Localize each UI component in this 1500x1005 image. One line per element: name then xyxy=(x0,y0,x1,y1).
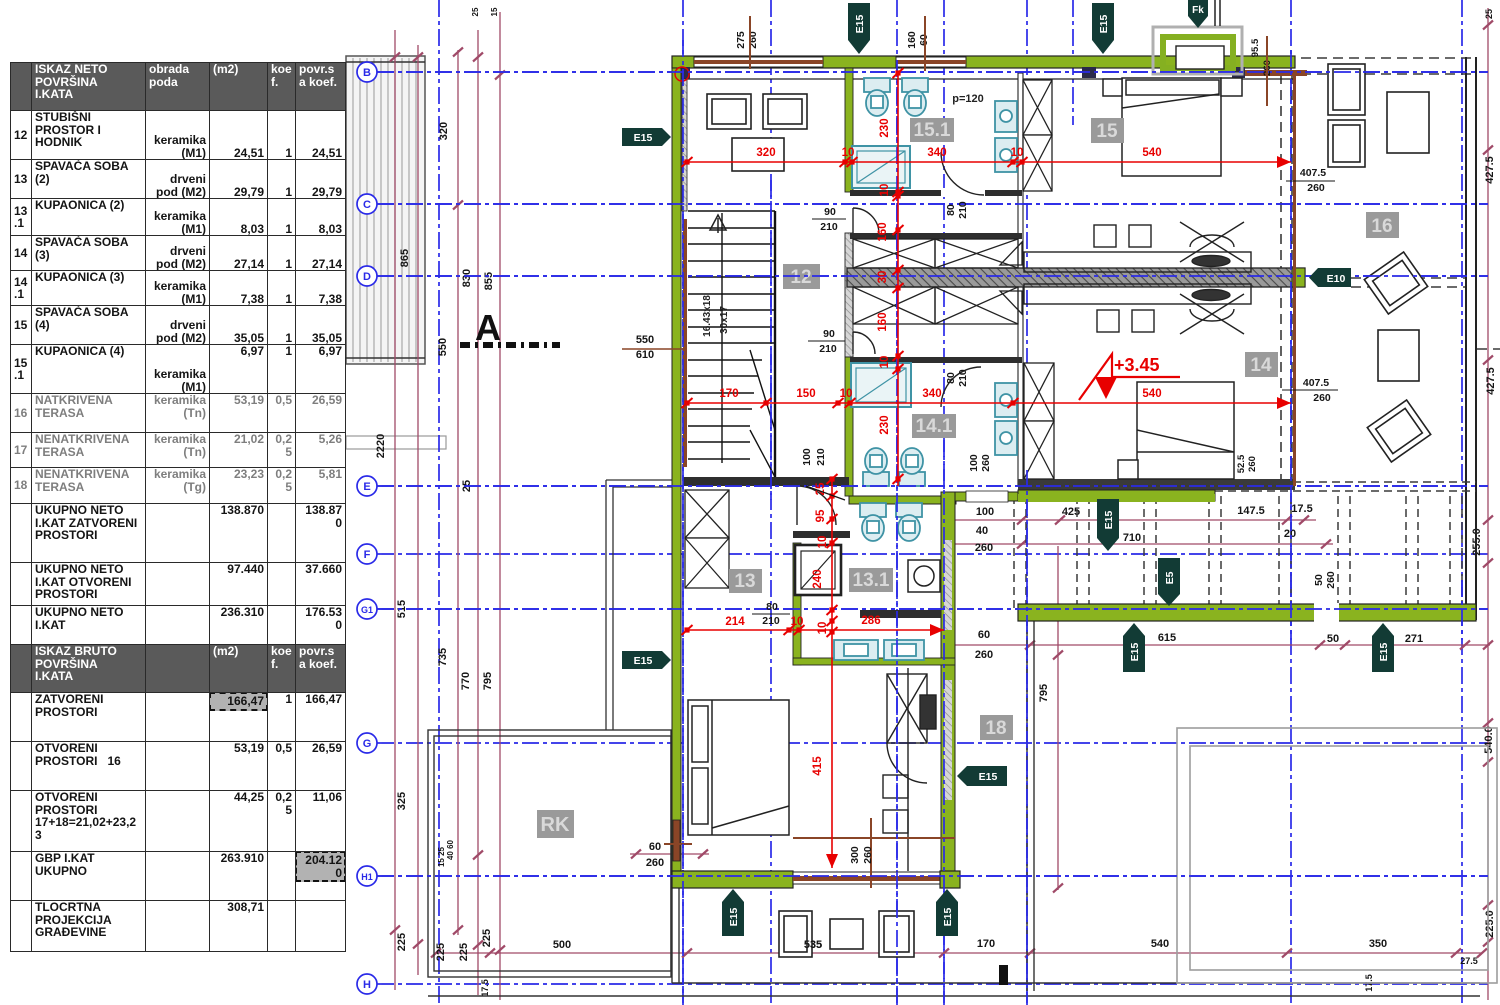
grid line C xyxy=(377,203,1488,205)
svg-text:340: 340 xyxy=(927,147,946,159)
grid line B xyxy=(377,71,1488,73)
svg-text:260: 260 xyxy=(1307,182,1325,194)
svg-text:C: C xyxy=(363,199,371,211)
callout box right of table xyxy=(346,436,446,449)
svg-text:15 25: 15 25 xyxy=(437,846,446,867)
svg-text:865: 865 xyxy=(399,249,411,267)
bottom terrace outline xyxy=(428,621,1480,996)
svg-text:50: 50 xyxy=(1313,574,1325,586)
svg-text:17.5: 17.5 xyxy=(1291,503,1312,515)
E15 banner down top wall 1 xyxy=(848,3,870,54)
room 12 label xyxy=(783,264,820,289)
svg-text:535: 535 xyxy=(804,939,822,951)
svg-text:325: 325 xyxy=(396,792,408,810)
svg-text:160: 160 xyxy=(877,312,889,331)
red rotated labels vertical chain 832 xyxy=(812,482,829,776)
door arc 14.1 xyxy=(941,367,981,407)
pergola top wall green xyxy=(1018,494,1215,502)
svg-text:275: 275 xyxy=(735,31,747,49)
grid col 7 xyxy=(1072,0,1074,125)
room 16 furniture xyxy=(1328,64,1431,462)
brown tick lower wall xyxy=(664,818,955,888)
svg-text:10: 10 xyxy=(879,184,891,197)
pergola posts dashed xyxy=(1014,482,1476,608)
svg-text:F: F xyxy=(364,549,371,561)
svg-text:147.5: 147.5 xyxy=(1237,505,1265,517)
E15 banner up bottom terrace 1 xyxy=(722,889,744,936)
svg-text:100: 100 xyxy=(976,506,994,518)
shower 15.1 xyxy=(852,146,910,188)
svg-text:B: B xyxy=(363,67,371,79)
svg-text:p=120: p=120 xyxy=(952,93,984,105)
vanity sinks 13.1 xyxy=(834,640,924,660)
wall 14.1 bottom green xyxy=(849,496,956,504)
svg-text:210: 210 xyxy=(815,448,827,466)
svg-text:2220: 2220 xyxy=(375,434,387,458)
550/610 labels left of stairs xyxy=(636,334,654,361)
rotated black door labels xyxy=(735,31,1337,864)
svg-text:+3.45: +3.45 xyxy=(1114,355,1160,375)
office chairs xyxy=(1180,222,1244,334)
svg-text:E15: E15 xyxy=(728,908,740,927)
stair text xyxy=(702,295,730,337)
red rotated labels vertical chain 898 xyxy=(877,118,891,434)
E15 banner down pergola xyxy=(1097,499,1119,551)
wall wardrobe top xyxy=(850,233,1022,239)
grid bubbles xyxy=(357,62,377,994)
E15 badge right-point upper xyxy=(622,128,671,146)
svg-text:27.5: 27.5 xyxy=(1460,956,1478,966)
svg-text:25: 25 xyxy=(471,7,480,16)
E5 banner down pergola xyxy=(1158,558,1180,606)
grid line E xyxy=(377,485,1488,487)
grid line G xyxy=(377,742,1488,744)
lower block east wall green xyxy=(941,492,955,881)
svg-text:230: 230 xyxy=(879,118,891,137)
coffee table room 12 xyxy=(732,138,784,171)
stair up arrow xyxy=(710,215,726,233)
svg-text:E15: E15 xyxy=(1103,511,1115,530)
grid line H xyxy=(377,983,1488,985)
dimension tick marks xyxy=(390,21,1493,958)
svg-text:E15: E15 xyxy=(942,908,954,927)
grid col 9 xyxy=(1461,0,1463,1005)
svg-text:14: 14 xyxy=(1250,355,1272,376)
bed room 13 xyxy=(688,700,789,835)
room 14 label xyxy=(1245,352,1278,377)
bath right wall xyxy=(1018,73,1023,486)
svg-text:G1: G1 xyxy=(361,605,373,615)
pergola bottom wall green xyxy=(1018,603,1476,622)
wardrobe room 14 xyxy=(1024,363,1054,479)
wardrobe room 13 xyxy=(685,490,729,588)
striped pergola deck top-left xyxy=(346,56,425,364)
svg-text:E15: E15 xyxy=(854,15,866,34)
svg-text:260: 260 xyxy=(1325,571,1337,589)
covered terrace 16 dashed outline xyxy=(1281,58,1500,486)
svg-text:10: 10 xyxy=(842,147,855,159)
left exterior wall xyxy=(672,68,687,885)
grid col 3 xyxy=(770,0,772,1005)
sinks 15.1 xyxy=(995,101,1017,172)
toilets 13.1 xyxy=(860,503,922,541)
svg-text:E15: E15 xyxy=(979,771,998,783)
svg-text:540: 540 xyxy=(1151,938,1169,950)
svg-text:795: 795 xyxy=(1038,684,1050,702)
svg-text:225: 225 xyxy=(396,933,408,951)
room 13 label xyxy=(729,569,762,593)
svg-text:260: 260 xyxy=(975,542,993,554)
svg-text:E15: E15 xyxy=(1129,643,1141,662)
grid col 8 xyxy=(1290,0,1292,1005)
svg-text:95: 95 xyxy=(815,509,827,522)
svg-text:770: 770 xyxy=(460,672,472,690)
svg-text:Fk: Fk xyxy=(1192,5,1204,16)
svg-text:225: 225 xyxy=(481,929,493,947)
wall between room12 and baths xyxy=(845,68,853,496)
room 18 label xyxy=(980,715,1013,740)
section marker A xyxy=(460,307,560,348)
svg-text:A: A xyxy=(475,307,501,348)
upper block bottom wall dark xyxy=(1018,479,1295,490)
svg-text:16.43x18: 16.43x18 xyxy=(702,295,713,337)
top exterior wall xyxy=(672,56,1307,79)
svg-text:100: 100 xyxy=(801,448,813,466)
washing machine 13.1 xyxy=(908,560,940,592)
svg-text:340: 340 xyxy=(922,388,941,400)
E15 badge right-point lower xyxy=(622,651,671,669)
svg-text:E: E xyxy=(363,481,370,493)
svg-text:90: 90 xyxy=(824,206,836,218)
black dims near stairs bottom xyxy=(806,486,845,500)
level marker +3.45 xyxy=(1079,354,1180,400)
svg-text:160: 160 xyxy=(877,222,889,241)
grid line F xyxy=(377,553,1488,555)
svg-text:50: 50 xyxy=(1327,633,1339,645)
wall 14.1 top xyxy=(850,357,1022,363)
svg-text:E15: E15 xyxy=(1378,643,1390,662)
red arrows xyxy=(1277,156,1291,168)
svg-text:10: 10 xyxy=(1011,147,1024,159)
svg-text:30x17: 30x17 xyxy=(719,306,730,334)
svg-text:30: 30 xyxy=(877,271,889,284)
svg-text:RK: RK xyxy=(541,814,570,836)
svg-text:240: 240 xyxy=(812,569,824,588)
svg-text:407.5: 407.5 xyxy=(1300,167,1326,179)
svg-text:260: 260 xyxy=(646,857,664,869)
terrace 16 right wall solid xyxy=(1466,57,1476,620)
svg-text:E10: E10 xyxy=(1327,273,1346,285)
bed room 15 xyxy=(1103,78,1242,176)
svg-text:H: H xyxy=(363,979,371,991)
svg-text:225.0: 225.0 xyxy=(1484,910,1496,938)
svg-text:15.1: 15.1 xyxy=(914,120,951,141)
shower 14.1 xyxy=(851,363,911,407)
90/210 black labels left of red chain xyxy=(0,0,1,1)
svg-text:10: 10 xyxy=(817,622,829,635)
svg-text:E5: E5 xyxy=(1164,571,1176,584)
balcony top right xyxy=(1153,0,1242,74)
svg-text:540.0: 540.0 xyxy=(1483,726,1495,754)
svg-text:260: 260 xyxy=(980,454,992,472)
svg-text:286: 286 xyxy=(861,615,880,627)
svg-text:260: 260 xyxy=(862,846,874,864)
svg-text:225: 225 xyxy=(435,943,447,961)
grid col 6 xyxy=(1026,0,1028,1005)
room 13.1 walls green xyxy=(793,531,955,665)
svg-text:18: 18 xyxy=(985,718,1006,739)
desk between C and D xyxy=(1024,225,1251,332)
svg-text:13: 13 xyxy=(734,571,755,592)
room 16 label xyxy=(1366,212,1399,238)
svg-text:230: 230 xyxy=(879,415,891,434)
terrace edge above RK xyxy=(606,480,672,730)
bottom terrace furniture xyxy=(779,911,914,957)
svg-text:610: 610 xyxy=(636,349,654,361)
svg-text:E15: E15 xyxy=(1098,15,1110,34)
svg-text:40 60: 40 60 xyxy=(446,839,455,860)
wall under stairs xyxy=(683,477,849,486)
E15 banner up bottom terrace 2 xyxy=(936,889,958,936)
svg-text:271: 271 xyxy=(1405,633,1423,645)
svg-text:170: 170 xyxy=(719,388,738,400)
svg-text:795: 795 xyxy=(482,672,494,690)
RK terrace outline xyxy=(428,730,671,977)
svg-text:10: 10 xyxy=(840,388,853,400)
svg-text:210: 210 xyxy=(957,369,969,387)
wardrobe room 15 xyxy=(1023,80,1052,191)
bottom dimension labels xyxy=(553,503,1478,966)
svg-text:210: 210 xyxy=(820,221,838,233)
svg-text:25: 25 xyxy=(1484,9,1494,19)
wall 15.1 bottom xyxy=(850,190,1022,196)
svg-text:80: 80 xyxy=(945,372,957,384)
grid col 5 xyxy=(943,0,945,1005)
bottom wall of lower block xyxy=(672,871,960,888)
left rotated dimension labels xyxy=(375,7,499,997)
svg-text:16: 16 xyxy=(1371,216,1392,237)
svg-text:320: 320 xyxy=(438,122,450,140)
wall piece east of 14.1 xyxy=(955,492,1018,501)
svg-text:E15: E15 xyxy=(634,132,653,144)
svg-text:830: 830 xyxy=(461,269,473,287)
svg-text:15: 15 xyxy=(1096,121,1118,142)
svg-text:60: 60 xyxy=(978,629,990,641)
green wall under rooms 14 xyxy=(1018,490,1215,501)
E15 banner up pergola wall 1 xyxy=(1123,623,1145,672)
svg-text:550: 550 xyxy=(636,334,654,346)
E10 badge left-point xyxy=(1309,268,1351,287)
sinks 14.1 xyxy=(995,383,1017,455)
area table ISKAZ NETO POVRSINA xyxy=(10,62,346,952)
svg-text:427.5: 427.5 xyxy=(1485,367,1497,395)
svg-text:160: 160 xyxy=(906,31,918,49)
staircase xyxy=(688,211,775,477)
svg-text:20: 20 xyxy=(1284,528,1296,540)
svg-text:80: 80 xyxy=(945,204,957,216)
svg-text:210: 210 xyxy=(957,201,969,219)
svg-text:855: 855 xyxy=(483,272,495,290)
room 13.1 label xyxy=(849,568,893,592)
room label RK xyxy=(537,810,574,838)
svg-text:40: 40 xyxy=(976,525,988,537)
svg-text:260: 260 xyxy=(1313,392,1331,404)
brown window dim lines top xyxy=(750,16,1267,106)
svg-text:210: 210 xyxy=(762,615,780,627)
svg-text:427.5: 427.5 xyxy=(1484,156,1496,184)
svg-text:300: 300 xyxy=(849,846,861,864)
beam at grid D xyxy=(847,268,1305,287)
E15 banner up pergola wall 2 xyxy=(1372,623,1394,672)
right rotated dimension labels xyxy=(1038,9,1497,992)
red circle column marker xyxy=(675,67,689,81)
svg-text:10: 10 xyxy=(817,536,829,549)
E15 badge left-point room18 xyxy=(957,766,1007,786)
pool outline bottom right xyxy=(1177,728,1497,983)
svg-text:260: 260 xyxy=(1247,456,1258,472)
door arc room 13 xyxy=(797,486,836,525)
room 15 label xyxy=(1091,118,1124,143)
room 14.1 label xyxy=(912,414,956,438)
black post markers bottom xyxy=(999,965,1008,985)
svg-text:D: D xyxy=(363,271,371,283)
svg-text:12: 12 xyxy=(790,267,811,288)
toilets 15.1 xyxy=(864,78,928,116)
svg-text:407.5: 407.5 xyxy=(1303,377,1329,389)
svg-text:150: 150 xyxy=(796,388,815,400)
toilets 14.1 xyxy=(863,448,925,486)
svg-text:10: 10 xyxy=(879,356,891,369)
svg-text:550: 550 xyxy=(437,338,449,356)
grid col 1 xyxy=(438,0,440,1005)
svg-text:214: 214 xyxy=(725,616,745,628)
svg-text:225: 225 xyxy=(458,943,470,961)
red tick markers xyxy=(682,68,1028,637)
svg-text:13.1: 13.1 xyxy=(853,570,890,591)
grid line H1 xyxy=(377,875,1488,877)
red dim line 1 xyxy=(683,73,1291,868)
grid line G1 xyxy=(377,608,1488,610)
grid line D xyxy=(377,275,1488,277)
grid col 2 xyxy=(682,0,684,1005)
wardrobe strip between C walls xyxy=(853,239,1018,324)
svg-text:80: 80 xyxy=(766,601,778,613)
svg-text:10: 10 xyxy=(791,616,804,628)
E15 banner down top wall 2 xyxy=(1092,3,1114,54)
svg-text:17.5: 17.5 xyxy=(480,979,490,997)
door arcs corridor left xyxy=(853,208,879,354)
svg-text:260: 260 xyxy=(975,649,993,661)
svg-text:415: 415 xyxy=(812,756,824,776)
grid col 4 xyxy=(896,0,898,1005)
svg-text:350: 350 xyxy=(1369,938,1387,950)
svg-text:90: 90 xyxy=(823,328,835,340)
svg-text:G: G xyxy=(363,738,372,750)
svg-text:170: 170 xyxy=(977,938,995,950)
svg-text:260: 260 xyxy=(747,31,759,49)
svg-text:615: 615 xyxy=(1158,632,1176,644)
armchairs room 12 xyxy=(707,94,807,129)
maroon dimension chains xyxy=(395,8,1490,1000)
svg-text:H1: H1 xyxy=(361,872,373,882)
Fk banner down xyxy=(1188,0,1208,28)
svg-text:540: 540 xyxy=(1142,147,1161,159)
room 15.1 label xyxy=(910,118,954,142)
svg-text:710: 710 xyxy=(1123,532,1141,544)
svg-text:100: 100 xyxy=(968,454,980,472)
svg-text:735: 735 xyxy=(437,648,449,666)
svg-text:E15: E15 xyxy=(634,655,653,667)
svg-text:95.5: 95.5 xyxy=(1250,38,1261,57)
svg-text:15: 15 xyxy=(490,7,499,16)
kitchen counter xyxy=(883,668,936,871)
door arc 15.1 xyxy=(941,152,984,195)
grid overlay over walls xyxy=(377,40,1488,1005)
svg-text:210: 210 xyxy=(819,343,837,355)
door swings at bath wall xyxy=(1000,242,1022,314)
shower 13.1 xyxy=(795,545,841,595)
bed room 14 xyxy=(1118,382,1234,479)
svg-text:320: 320 xyxy=(756,147,775,159)
svg-text:60: 60 xyxy=(649,841,661,853)
red dim labels line1 xyxy=(719,147,1161,628)
svg-text:540: 540 xyxy=(1142,388,1161,400)
black door labels xyxy=(762,167,1331,627)
svg-text:500: 500 xyxy=(553,939,571,951)
svg-text:14.1: 14.1 xyxy=(916,416,953,437)
svg-text:52.5: 52.5 xyxy=(1236,454,1247,473)
terrace16 window edge brown xyxy=(1293,73,1296,486)
